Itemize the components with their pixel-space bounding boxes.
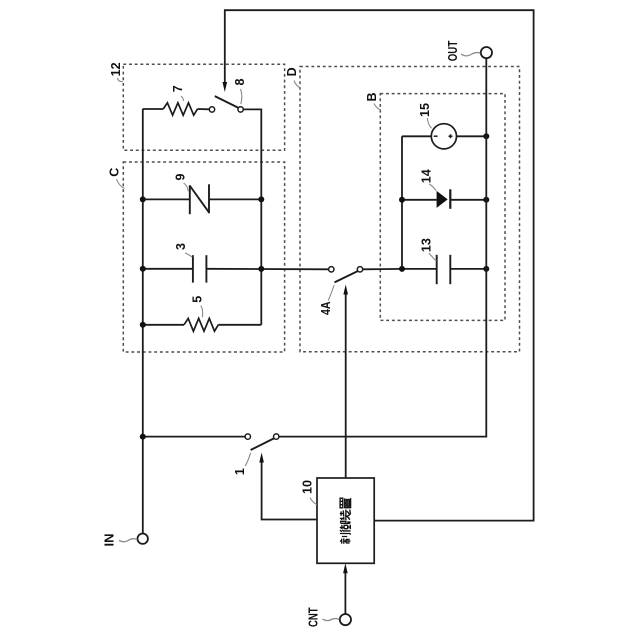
label 5 <box>190 296 204 317</box>
wire: branch 14 left <box>402 199 437 201</box>
dashed box B <box>380 94 505 321</box>
node: IN junction <box>140 434 146 440</box>
svg-text:IN: IN <box>103 534 117 547</box>
svg-text:3: 3 <box>174 243 188 250</box>
svg-text:15: 15 <box>418 103 432 117</box>
label 12 <box>109 62 123 81</box>
node: branch 3 / right bus <box>258 266 264 272</box>
svg-text:CNT: CNT <box>306 607 320 627</box>
svg-text:D: D <box>285 67 299 76</box>
label C <box>108 168 125 189</box>
resistor R7 <box>163 103 197 115</box>
label 14 <box>420 169 437 190</box>
svg-text:OUT: OUT <box>446 40 460 61</box>
switch SW4A <box>329 267 363 283</box>
svg-text:4A: 4A <box>319 302 333 316</box>
label OUT <box>446 40 481 61</box>
wire: branch 3 left <box>143 268 193 270</box>
node: branch 9 / right bus <box>258 196 264 202</box>
element 9 (N symbol) <box>190 184 209 214</box>
wire: branch 14 right <box>450 199 486 201</box>
wire: left bus of box B <box>401 136 403 269</box>
svg-text:13: 13 <box>420 238 434 252</box>
wire: branch 13 right <box>450 268 486 270</box>
control device box 10 <box>317 478 374 563</box>
switch SW8 <box>209 96 243 112</box>
node: branch 3 / left bus <box>140 266 146 272</box>
wire: branch 5 right <box>218 324 261 326</box>
label D <box>285 67 301 88</box>
wire: branch 13 left <box>402 268 437 270</box>
node: branch 14 / out bus <box>483 197 489 203</box>
label 7 <box>171 85 185 101</box>
terminal OUT <box>481 47 492 58</box>
label B <box>365 92 381 110</box>
wire: branch of resistor 7 (left lead) <box>143 108 163 110</box>
wire: branch 15 right <box>457 135 487 137</box>
svg-text:B: B <box>365 92 379 101</box>
label 3 <box>174 243 192 257</box>
wire: resistor 7 to switch 8 <box>198 108 210 110</box>
node: branch 13 / out bus <box>483 266 489 272</box>
diode 14 <box>437 189 451 209</box>
node: branch 13 / left bus <box>399 266 405 272</box>
kanji 装 <box>340 510 351 521</box>
wire: branch 3 right (to switch 4A) <box>206 268 328 271</box>
wire: branch 9 left <box>143 198 190 200</box>
wire: control line to switch 8 <box>225 10 534 520</box>
svg-text:5: 5 <box>190 296 204 303</box>
svg-text:C: C <box>108 168 122 177</box>
label 10 <box>300 480 316 505</box>
kanji 置 (top of vertical 制御装置) <box>340 498 351 508</box>
dashed box D <box>300 67 520 352</box>
svg-text:14: 14 <box>420 169 434 183</box>
label 4A <box>319 285 334 315</box>
label 8 <box>233 78 247 104</box>
svg-text:9: 9 <box>174 173 188 180</box>
wire: switch 4A to box B <box>363 268 402 270</box>
terminal IN <box>138 534 148 544</box>
wire: left bus (IN riser) <box>142 109 144 534</box>
wire: switch 8 to right bus <box>243 108 261 110</box>
switch SW1 <box>245 434 279 450</box>
arrow to switch 4A (from control device) <box>343 285 348 479</box>
node: branch 14 / left bus <box>399 197 405 203</box>
node: branch 5 / left bus <box>140 322 146 328</box>
label IN <box>103 534 138 547</box>
current source 15 <box>431 124 456 149</box>
wire: OUT bus <box>279 58 486 436</box>
arrow to switch 1 (from control device) <box>259 453 317 520</box>
svg-text:8: 8 <box>233 78 247 85</box>
node: branch 15 / out bus <box>483 133 489 139</box>
wire: branch 9 right <box>209 198 261 200</box>
dashed box 12 <box>123 64 284 150</box>
svg-text:1: 1 <box>233 468 247 475</box>
kanji 制 (bottom) <box>340 534 351 544</box>
dashed box C <box>123 162 284 352</box>
arrow to switch 8 <box>223 82 228 92</box>
label 1 <box>233 453 251 475</box>
terminal CNT <box>340 614 351 625</box>
svg-text:12: 12 <box>109 62 123 76</box>
capacitor C3 <box>193 255 207 282</box>
svg-text:10: 10 <box>300 480 314 494</box>
capacitor 13 <box>437 255 451 284</box>
label CNT <box>306 607 339 627</box>
svg-text:7: 7 <box>171 85 185 92</box>
wire: switch 1 to left bus <box>143 436 245 438</box>
kanji 御 <box>340 521 351 531</box>
label 9 <box>174 173 189 191</box>
node: branch 9 / left bus <box>140 196 146 202</box>
resistor R5 <box>184 318 218 331</box>
arrow CNT to control device <box>343 563 348 614</box>
wire: branch 15 left <box>402 135 431 137</box>
label 13 <box>420 238 437 261</box>
wire: right bus of box C <box>260 109 262 325</box>
wire: branch 5 left <box>143 324 184 326</box>
label 15 <box>418 103 432 128</box>
